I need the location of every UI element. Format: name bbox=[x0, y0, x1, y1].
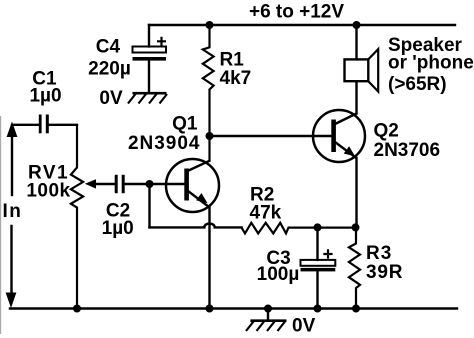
node R1 top bbox=[206, 21, 214, 29]
node C3 top junction bbox=[314, 223, 322, 231]
node R3 bottom bbox=[352, 305, 360, 313]
svg-text:Q1: Q1 bbox=[172, 114, 198, 135]
potentiometer RV1 bbox=[71, 125, 115, 309]
svg-text:0V: 0V bbox=[292, 316, 316, 337]
wire Q1 emitter down bbox=[208, 207, 210, 309]
wire +V rail bbox=[149, 24, 455, 26]
node Q1 collector / Q2 base junction bbox=[206, 132, 214, 140]
svg-text:In: In bbox=[3, 201, 23, 222]
svg-text:Q2: Q2 bbox=[374, 121, 399, 142]
wire C1 left bbox=[12, 124, 39, 126]
svg-text:47k: 47k bbox=[250, 203, 282, 224]
svg-text:(>65R): (>65R) bbox=[388, 74, 447, 95]
wire feedback from base node down bbox=[148, 184, 150, 227]
node C3 bottom bbox=[314, 305, 322, 313]
svg-text:1µ0: 1µ0 bbox=[102, 218, 134, 239]
capacitor C2 bbox=[115, 175, 125, 193]
node speaker top bbox=[353, 21, 361, 29]
svg-text:2N3706: 2N3706 bbox=[374, 140, 441, 161]
resistor R1 bbox=[203, 25, 214, 162]
node Q1 emitter bottom bbox=[206, 305, 214, 313]
capacitor C3 bbox=[301, 227, 336, 308]
wire Q2 collector bbox=[355, 81, 357, 113]
speaker bbox=[345, 25, 379, 92]
transistor Q1 bbox=[166, 159, 219, 212]
capacitor C4 bbox=[133, 37, 167, 61]
resistor R2 bbox=[242, 223, 356, 234]
node RV1 bottom bbox=[73, 305, 81, 313]
node ground tap bbox=[264, 305, 272, 313]
svg-text:100k: 100k bbox=[26, 181, 70, 202]
wire C2 right lead bbox=[125, 183, 150, 185]
svg-text:+6 to +12V: +6 to +12V bbox=[249, 2, 344, 23]
wire Q1 base lead bbox=[150, 183, 184, 185]
resistor R3 bbox=[349, 230, 360, 309]
svg-text:0V: 0V bbox=[99, 88, 123, 109]
wire C4 top lead bbox=[148, 25, 150, 47]
svg-text:2N3904: 2N3904 bbox=[128, 133, 201, 154]
wire Q2 emitter bbox=[355, 158, 357, 230]
ground (C4 0V) bbox=[128, 93, 167, 103]
svg-text:C4: C4 bbox=[96, 37, 121, 58]
svg-text:or 'phone: or 'phone bbox=[388, 53, 474, 74]
svg-text:100µ: 100µ bbox=[257, 264, 300, 285]
svg-text:4k7: 4k7 bbox=[220, 68, 252, 89]
wire feedback horizontal with hump bbox=[150, 223, 242, 227]
node R2 / Q2 emitter / R3 junction bbox=[352, 223, 360, 231]
svg-text:39R: 39R bbox=[366, 262, 403, 283]
wire C1 right to RV1 bbox=[49, 124, 77, 126]
capacitor C1 bbox=[39, 115, 49, 134]
svg-text:220µ: 220µ bbox=[88, 58, 131, 79]
transistor Q2 bbox=[313, 110, 365, 162]
node C2 / Q1 base junction bbox=[146, 180, 154, 188]
wire C4 bottom lead bbox=[148, 61, 150, 93]
ground (0V rail) bbox=[246, 309, 287, 332]
wire Q2 base bbox=[210, 135, 332, 137]
input terminal arrows and line bbox=[6, 122, 18, 309]
svg-text:1µ0: 1µ0 bbox=[29, 86, 61, 107]
wire 0V rail bbox=[10, 307, 457, 309]
scan edge artifact bbox=[0, 116, 1, 334]
